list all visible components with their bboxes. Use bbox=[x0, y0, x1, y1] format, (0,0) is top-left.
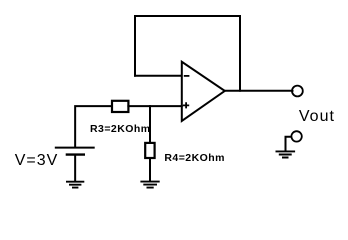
resistor R3 bbox=[112, 101, 128, 112]
ground reference bbox=[276, 151, 296, 157]
wire feedback left vertical bbox=[134, 16, 136, 76]
ground battery bbox=[66, 182, 84, 188]
ground R4 bbox=[140, 182, 159, 188]
wire inverting input bbox=[135, 75, 181, 77]
op-amp U1 bbox=[182, 62, 225, 121]
battery V1 plate negative bbox=[66, 153, 85, 155]
node Vout reference terminal bbox=[291, 131, 301, 141]
wire junction drop to R4 bbox=[149, 106, 151, 142]
wire feedback right vertical bbox=[239, 16, 241, 91]
wire feedback top bbox=[135, 15, 240, 17]
wire R3 to op-amp plus input bbox=[128, 105, 181, 107]
svg-text:R4=2KOhm: R4=2KOhm bbox=[164, 152, 225, 164]
svg-text:R3=2KOhm: R3=2KOhm bbox=[90, 123, 151, 135]
node output terminal bbox=[292, 86, 303, 97]
battery V1 plate positive bbox=[55, 147, 95, 149]
svg-text:V=3V: V=3V bbox=[15, 152, 59, 169]
svg-text:Vout: Vout bbox=[299, 108, 335, 125]
wire R4 to ground bbox=[149, 158, 151, 181]
wire battery bottom to ground bbox=[74, 155, 76, 181]
wire battery to R3 bbox=[75, 106, 112, 147]
pin label minus bbox=[184, 75, 190, 77]
resistor R4 bbox=[145, 143, 154, 158]
wire output bbox=[225, 90, 293, 92]
wire reference terminal to ground bbox=[286, 137, 292, 151]
pin label plus bbox=[183, 102, 189, 108]
